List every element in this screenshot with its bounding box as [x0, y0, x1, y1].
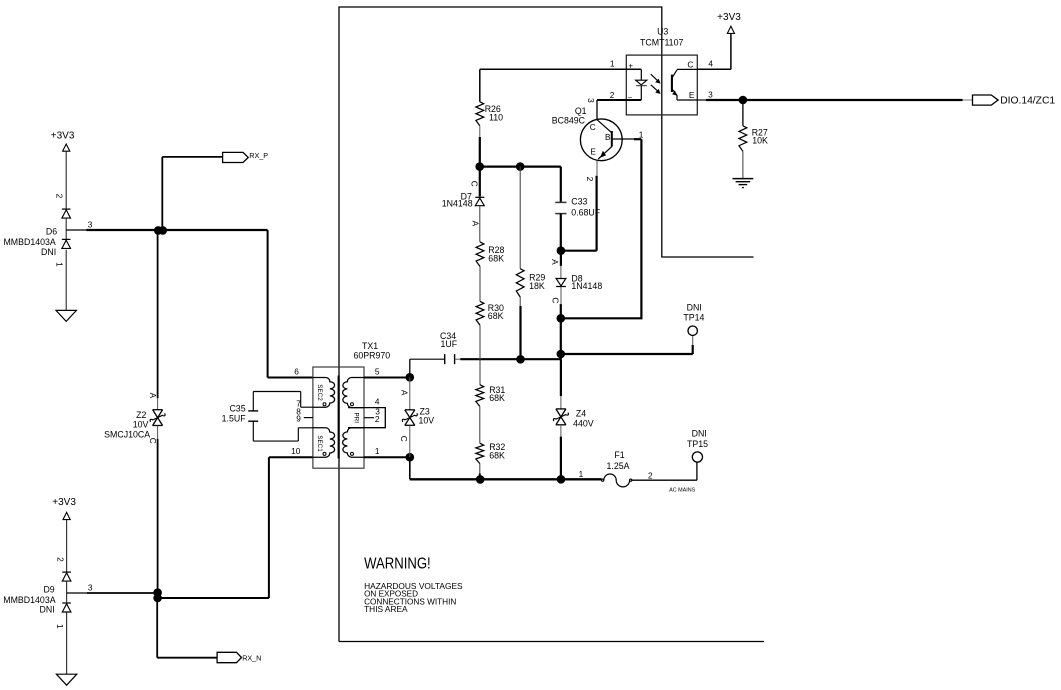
- svg-text:RX_P: RX_P: [249, 151, 268, 160]
- svg-text:MMBD1403A: MMBD1403A: [3, 595, 55, 605]
- svg-text:TCMT1107: TCMT1107: [640, 37, 683, 47]
- svg-text:10V: 10V: [133, 419, 149, 429]
- svg-text:C33: C33: [571, 197, 587, 207]
- svg-text:DNI: DNI: [692, 429, 707, 439]
- svg-text:TP14: TP14: [683, 313, 704, 323]
- svg-text:60PR970: 60PR970: [353, 350, 390, 360]
- svg-text:+3V3: +3V3: [52, 497, 76, 508]
- svg-text:68K: 68K: [489, 393, 505, 403]
- svg-text:B: B: [605, 132, 611, 142]
- svg-text:Z4: Z4: [576, 409, 586, 419]
- svg-text:C: C: [469, 181, 479, 187]
- svg-text:A: A: [470, 221, 480, 227]
- svg-text:E: E: [590, 147, 596, 157]
- svg-text:+3V3: +3V3: [51, 131, 75, 142]
- svg-text:DIO.14/ZC1: DIO.14/ZC1: [1000, 96, 1055, 107]
- svg-text:SEC2: SEC2: [316, 384, 323, 401]
- svg-text:TP15: TP15: [687, 439, 708, 449]
- svg-text:110: 110: [489, 112, 503, 122]
- svg-text:C: C: [687, 60, 693, 70]
- svg-text:C: C: [551, 297, 561, 303]
- svg-text:A: A: [148, 393, 158, 399]
- svg-text:RX_N: RX_N: [242, 653, 261, 662]
- svg-text:THIS AREA: THIS AREA: [364, 605, 408, 614]
- svg-text:3: 3: [88, 582, 93, 592]
- svg-text:1: 1: [610, 59, 615, 69]
- svg-text:2: 2: [585, 177, 595, 182]
- svg-text:5: 5: [375, 367, 380, 377]
- svg-text:4: 4: [708, 58, 713, 68]
- svg-text:1.25A: 1.25A: [607, 461, 630, 471]
- svg-text:SMCJ10CA: SMCJ10CA: [104, 430, 150, 440]
- svg-text:2: 2: [375, 414, 380, 424]
- svg-text:1: 1: [55, 624, 65, 629]
- svg-text:1.5UF: 1.5UF: [222, 413, 247, 423]
- svg-text:BC849C: BC849C: [552, 115, 586, 125]
- svg-text:+3V3: +3V3: [717, 12, 741, 23]
- svg-text:+: +: [628, 61, 633, 71]
- svg-text:1N4148: 1N4148: [442, 199, 473, 209]
- svg-text:3: 3: [708, 89, 713, 99]
- svg-text:AC MAINS: AC MAINS: [669, 488, 695, 494]
- svg-text:10: 10: [291, 446, 301, 456]
- svg-text:3: 3: [88, 220, 93, 230]
- svg-text:PRI: PRI: [352, 412, 359, 423]
- svg-text:440V: 440V: [573, 418, 594, 428]
- svg-text:C35: C35: [229, 404, 245, 414]
- svg-text:U3: U3: [657, 27, 668, 37]
- svg-text:2: 2: [55, 557, 65, 562]
- svg-text:A: A: [550, 259, 560, 265]
- svg-text:2: 2: [55, 194, 65, 199]
- svg-text:18K: 18K: [529, 281, 545, 291]
- svg-text:C: C: [399, 436, 409, 442]
- svg-text:F1: F1: [614, 450, 624, 460]
- svg-text:1: 1: [639, 130, 644, 140]
- svg-text:D9: D9: [43, 585, 54, 595]
- svg-text:DNI: DNI: [41, 247, 56, 257]
- svg-text:9: 9: [296, 414, 301, 424]
- svg-text:68K: 68K: [488, 253, 504, 263]
- svg-text:A: A: [400, 390, 410, 396]
- svg-text:WARNING!: WARNING!: [364, 556, 431, 573]
- svg-text:6: 6: [294, 367, 299, 377]
- svg-text:2: 2: [610, 90, 615, 100]
- svg-text:E: E: [689, 90, 695, 100]
- svg-text:1N4148: 1N4148: [571, 281, 602, 291]
- svg-text:1: 1: [54, 262, 64, 267]
- svg-text:10V: 10V: [419, 416, 435, 426]
- svg-text:1: 1: [375, 446, 380, 456]
- svg-text:3: 3: [586, 98, 596, 103]
- svg-text:68K: 68K: [488, 311, 504, 321]
- svg-text:D6: D6: [46, 227, 57, 237]
- svg-text:MMBD1403A: MMBD1403A: [3, 237, 55, 247]
- svg-text:10K: 10K: [752, 136, 768, 146]
- svg-text:DNI: DNI: [40, 605, 55, 615]
- svg-text:C: C: [590, 122, 596, 132]
- svg-text:1UF: 1UF: [441, 339, 458, 349]
- svg-text:DNI: DNI: [687, 303, 702, 313]
- svg-text:Z2: Z2: [136, 410, 146, 420]
- svg-text:2: 2: [648, 470, 653, 480]
- svg-text:4: 4: [375, 396, 380, 406]
- svg-text:1: 1: [579, 469, 584, 479]
- svg-text:SEC1: SEC1: [316, 435, 323, 452]
- svg-text:68K: 68K: [489, 450, 505, 460]
